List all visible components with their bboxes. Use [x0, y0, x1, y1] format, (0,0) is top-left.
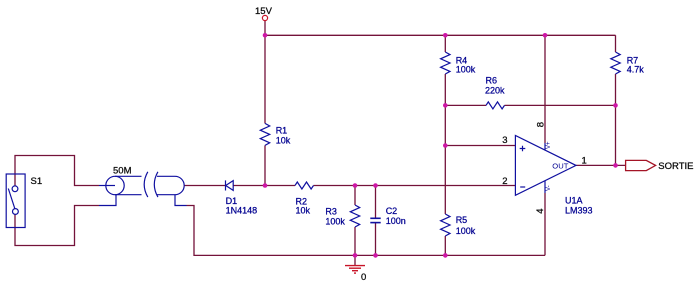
svg-text:R1: R1: [276, 126, 288, 136]
svg-text:220k: 220k: [485, 85, 505, 95]
svg-text:LM393: LM393: [565, 205, 593, 215]
svg-text:50M: 50M: [113, 166, 132, 177]
svg-text:15V: 15V: [255, 6, 273, 17]
svg-text:OUT: OUT: [552, 162, 568, 171]
svg-text:0: 0: [361, 272, 366, 283]
svg-text:100k: 100k: [456, 226, 476, 236]
svg-text:R5: R5: [456, 215, 468, 225]
svg-text:S1: S1: [31, 176, 43, 187]
svg-text:V-: V-: [546, 185, 552, 191]
svg-text:C2: C2: [386, 206, 398, 216]
svg-text:4.7k: 4.7k: [627, 65, 645, 75]
svg-text:R6: R6: [486, 75, 498, 85]
svg-text:3: 3: [502, 135, 507, 146]
svg-text:R3: R3: [325, 207, 337, 217]
svg-text:SORTIE: SORTIE: [658, 161, 693, 172]
svg-text:1N4148: 1N4148: [226, 205, 258, 215]
svg-text:100k: 100k: [325, 216, 345, 226]
svg-text:100n: 100n: [386, 216, 406, 226]
svg-text:10k: 10k: [296, 206, 311, 216]
svg-text:8: 8: [536, 122, 547, 127]
svg-text:2: 2: [502, 176, 507, 187]
svg-text:D1: D1: [226, 196, 238, 206]
svg-text:V+: V+: [546, 141, 552, 149]
svg-text:1: 1: [582, 156, 587, 167]
svg-text:U1A: U1A: [565, 195, 583, 205]
svg-text:100k: 100k: [456, 65, 476, 75]
svg-text:4: 4: [535, 209, 546, 214]
svg-text:10k: 10k: [276, 136, 291, 146]
